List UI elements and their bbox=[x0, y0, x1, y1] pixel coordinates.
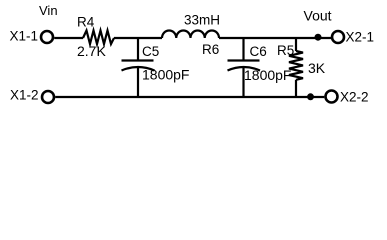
svg-text:X1-2: X1-2 bbox=[10, 88, 39, 103]
terminal X2-2 bbox=[326, 91, 338, 103]
svg-text:C6: C6 bbox=[250, 44, 267, 59]
wire C5 to bottom bbox=[137, 67, 139, 98]
svg-text:2.7K: 2.7K bbox=[77, 43, 106, 59]
svg-text:Vout: Vout bbox=[304, 8, 332, 24]
svg-text:R4: R4 bbox=[77, 15, 95, 30]
svg-text:R5: R5 bbox=[277, 43, 294, 58]
wire R5 top bbox=[295, 38, 297, 51]
junction dot Vout bbox=[315, 34, 322, 41]
wire inductor to X2-1 bbox=[219, 37, 331, 39]
inductor R6 33mH bbox=[162, 30, 219, 38]
wire R5 bottom bbox=[295, 80, 297, 97]
svg-text:R6: R6 bbox=[202, 42, 219, 57]
svg-text:1800pF: 1800pF bbox=[244, 67, 291, 83]
terminal X2-1 bbox=[332, 31, 344, 43]
capacitor C6 bbox=[228, 59, 260, 61]
terminal X1-2 bbox=[42, 91, 54, 103]
svg-text:1800pF: 1800pF bbox=[142, 67, 189, 83]
svg-text:3K: 3K bbox=[308, 60, 326, 76]
junction dot bottom bbox=[307, 93, 314, 100]
capacitor C5 bbox=[122, 59, 154, 61]
terminal X1-1 bbox=[41, 31, 53, 43]
svg-text:Vin: Vin bbox=[39, 3, 58, 18]
svg-text:X1-1: X1-1 bbox=[10, 29, 39, 44]
resistor R4 bbox=[83, 31, 114, 45]
svg-text:C5: C5 bbox=[142, 44, 159, 59]
wire node C5 top bbox=[137, 38, 139, 60]
svg-text:X2-1: X2-1 bbox=[346, 30, 375, 45]
wire R4 to inductor bbox=[114, 37, 162, 39]
wire X1-1 to R4 bbox=[54, 37, 83, 39]
resistor R5 bbox=[289, 51, 303, 80]
bottom wire bbox=[55, 96, 324, 98]
svg-text:33mH: 33mH bbox=[184, 13, 220, 28]
wire node C6 top bbox=[242, 38, 244, 60]
svg-text:X2-2: X2-2 bbox=[340, 90, 369, 105]
wire C6 to bottom bbox=[242, 67, 244, 98]
